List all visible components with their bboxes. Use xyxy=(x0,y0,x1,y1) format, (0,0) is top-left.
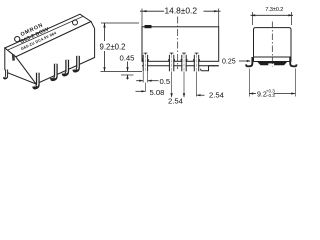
svg-text:14.8±0.2: 14.8±0.2 xyxy=(165,5,198,15)
svg-text:−0.3: −0.3 xyxy=(266,93,276,98)
svg-text:0.5: 0.5 xyxy=(160,77,171,86)
dim 9.2 ext line top xyxy=(101,22,139,24)
dim 9.2 ext line bottom xyxy=(101,71,143,73)
top face marking circle left xyxy=(15,37,20,42)
front view body xyxy=(142,27,219,62)
relay 3D view body top face xyxy=(5,14,91,57)
dim 5.08 xyxy=(144,83,146,92)
dim 9.2 bottom ext lines xyxy=(248,69,250,97)
front view pin 1 xyxy=(142,53,149,72)
front view center line xyxy=(177,17,179,70)
dim 9.2 bottom line xyxy=(249,93,256,95)
svg-text:0.25: 0.25 xyxy=(222,59,236,66)
side view body xyxy=(254,28,292,62)
dim 7.3 line xyxy=(251,14,294,16)
dim 2.54 center ext arrows xyxy=(171,72,173,98)
svg-text:9.2±0.2: 9.2±0.2 xyxy=(100,43,126,52)
dim 14.8 line xyxy=(140,10,221,12)
3D pin front 2 xyxy=(52,64,56,79)
dim 14.8 ext lines xyxy=(141,9,143,27)
3D pin front 1 xyxy=(34,73,38,88)
side view bottom edge xyxy=(254,61,292,63)
front view pin 4 xyxy=(193,53,200,72)
top face marking circle right xyxy=(73,20,78,25)
dim 0.45 ext line xyxy=(121,74,134,76)
front view pin 3 xyxy=(181,53,188,72)
relay 3D view left end face xyxy=(5,48,36,84)
left face mark xyxy=(12,54,15,61)
top face inner rim line xyxy=(8,16,83,50)
3D pin front 4 xyxy=(74,56,78,71)
side view standoff xyxy=(257,62,288,66)
3D pin front 3 xyxy=(64,60,68,75)
dim 0.5 xyxy=(142,72,144,83)
front view pin 2 xyxy=(168,53,175,72)
top face text OMRON xyxy=(19,22,57,51)
dim 7.3 ext lines xyxy=(252,12,254,25)
side view right pin xyxy=(290,57,296,66)
3D pin left end xyxy=(4,70,6,78)
front view bottom right step xyxy=(201,66,219,71)
dimension texts xyxy=(100,5,284,105)
front view bottom band line xyxy=(142,65,219,67)
svg-text:2.54: 2.54 xyxy=(209,90,225,99)
side view center line xyxy=(271,22,273,67)
dim 0.45 arrows xyxy=(127,62,129,72)
svg-text:2.54: 2.54 xyxy=(168,96,184,105)
svg-text:5.08: 5.08 xyxy=(150,88,165,97)
dim 2.54 right xyxy=(196,72,198,97)
svg-text:7.3±0.2: 7.3±0.2 xyxy=(265,7,283,13)
side view left pin xyxy=(246,57,252,66)
svg-text:0.45: 0.45 xyxy=(120,53,135,62)
side view seam line xyxy=(254,56,292,58)
dim 0.25 leader xyxy=(239,60,250,62)
front view orientation mark xyxy=(145,25,152,28)
relay 3D view front face xyxy=(16,22,95,85)
dim 9.2 line xyxy=(104,23,106,71)
